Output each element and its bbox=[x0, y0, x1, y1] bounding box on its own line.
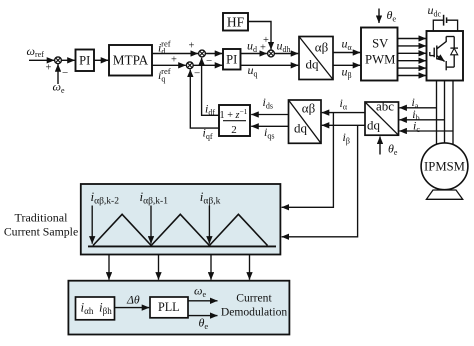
wire omega_ref input bbox=[29, 59, 54, 61]
wire i_b bbox=[399, 119, 444, 121]
capacitor dc link bbox=[444, 15, 447, 26]
transistor IGBT inside inverter bbox=[430, 37, 446, 71]
wire i_qs bbox=[251, 125, 288, 127]
wire SJ3 to PI2 bbox=[193, 64, 222, 66]
wire PLL theta_e out bbox=[188, 315, 218, 317]
wire i_alpha bbox=[322, 112, 365, 114]
label i_alpha bbox=[340, 96, 348, 111]
wire sample to demod 1 bbox=[108, 255, 110, 280]
wire omega_e up into SJ1 bbox=[57, 64, 59, 84]
label delta theta bbox=[126, 292, 140, 306]
label i_qs bbox=[264, 125, 274, 140]
wire phase a vertical bbox=[436, 81, 438, 145]
label omega_e out bbox=[194, 284, 206, 299]
wire i_df feedback to SJ2 bbox=[202, 58, 219, 116]
wire i_beta bbox=[322, 124, 365, 126]
wire SJ2 to PI2 bbox=[205, 53, 222, 55]
wire sample to demod 3 bbox=[210, 255, 212, 280]
label i_ab,k bbox=[200, 189, 221, 207]
wire theta_e into abc/dq bbox=[379, 137, 381, 155]
sample arrow k-1 bbox=[150, 206, 152, 244]
wire phase b vertical bbox=[444, 81, 446, 143]
svg-text:+: + bbox=[171, 55, 177, 66]
label u_alpha bbox=[342, 37, 353, 52]
label i_beta bbox=[343, 130, 350, 145]
block filter (1+z^-1)/2 bbox=[219, 105, 250, 136]
svg-text:+: + bbox=[260, 43, 266, 54]
sample arrow k-2 bbox=[91, 206, 93, 244]
summing junction SJ3 bbox=[186, 62, 200, 80]
wire phase c vertical bbox=[452, 81, 454, 145]
motor IPMSM bbox=[421, 143, 468, 199]
summing junction SJ1 bbox=[46, 57, 69, 79]
label id_ref bbox=[158, 39, 171, 56]
block PI1 bbox=[76, 50, 95, 72]
block ih box bbox=[76, 297, 115, 320]
wire ih to PLL bbox=[115, 307, 150, 309]
block U2 abc/dq current transform bbox=[365, 99, 399, 136]
wire MTPA to SJ3 (q-axis) bbox=[152, 64, 186, 66]
carrier triangle wave bbox=[93, 214, 268, 245]
wire MTPA to SJ2 (d-axis) bbox=[152, 53, 198, 55]
svg-text:dq: dq bbox=[306, 57, 320, 72]
block MTPA bbox=[109, 45, 152, 76]
svg-text:Current: Current bbox=[236, 292, 272, 305]
label iq_ref bbox=[158, 66, 171, 83]
svg-text:PI: PI bbox=[79, 54, 90, 68]
svg-text:Traditional: Traditional bbox=[15, 210, 69, 224]
wires SVPWM to inverter (6 gate lines) bbox=[398, 39, 427, 76]
wire i_a bbox=[399, 107, 436, 109]
wire u_alpha to SVPWM bbox=[333, 52, 360, 54]
wire theta_e into SVPWM top bbox=[378, 9, 380, 24]
label i_ab,k-1 bbox=[140, 189, 169, 207]
label u_dc bbox=[428, 3, 442, 18]
sample arrow k bbox=[208, 206, 210, 244]
block inverter bbox=[427, 31, 464, 81]
wire i_alpha tap down to sample box bbox=[282, 113, 334, 208]
label u_beta bbox=[342, 65, 352, 80]
label i_qf bbox=[203, 126, 213, 141]
label i_c bbox=[413, 119, 420, 134]
wire PI2 to ab/dq block (u_q) bbox=[241, 64, 299, 66]
block traditional current sample box bbox=[81, 184, 281, 255]
block PLL bbox=[150, 297, 188, 318]
svg-text:−: − bbox=[194, 68, 200, 80]
label Traditional Current Sample bbox=[4, 210, 78, 238]
wire SJ1 to PI1 bbox=[61, 59, 74, 61]
diode freewheeling inside inverter bbox=[446, 37, 458, 68]
svg-text:+: + bbox=[189, 41, 195, 52]
svg-text:SV: SV bbox=[372, 37, 389, 51]
svg-text:abc: abc bbox=[376, 99, 394, 114]
wire i_beta tap down to sample box bbox=[282, 125, 358, 237]
wire sample to demod 4 bbox=[249, 255, 251, 280]
label i_a bbox=[412, 95, 419, 110]
svg-text:PWM: PWM bbox=[365, 53, 395, 67]
wire sample to demod 2 bbox=[158, 255, 160, 280]
label i_ds bbox=[263, 95, 273, 110]
wire dc bus left bbox=[433, 20, 443, 31]
block U1 alphabeta/dq voltage transform bbox=[299, 37, 333, 80]
wire i_qf feedback to SJ3 bbox=[190, 70, 219, 129]
svg-text:PI: PI bbox=[226, 53, 237, 67]
svg-text:MTPA: MTPA bbox=[113, 53, 149, 68]
wire PLL omega_e out bbox=[188, 300, 218, 302]
block SVPWM bbox=[361, 28, 398, 81]
label u_dh bbox=[277, 39, 291, 54]
summing junction SJ4 bbox=[268, 50, 275, 57]
svg-text:Current Sample: Current Sample bbox=[4, 224, 78, 238]
block U3 alphabeta/dq current transform bbox=[289, 100, 322, 143]
label i_ab,k-2 bbox=[91, 189, 120, 207]
wire i_ds bbox=[251, 114, 288, 116]
wire SJ4 to ab/dq block bbox=[274, 53, 298, 55]
wire dc bus right bbox=[447, 20, 457, 31]
svg-text:−: − bbox=[62, 67, 68, 79]
label theta_e at SVPWM bbox=[387, 8, 397, 23]
svg-text:Demodulation: Demodulation bbox=[221, 306, 288, 319]
wire i_c bbox=[399, 130, 453, 132]
svg-text:αβ: αβ bbox=[302, 101, 316, 116]
label u_q bbox=[248, 63, 258, 78]
svg-text:PLL: PLL bbox=[158, 300, 180, 314]
sample baseline bbox=[88, 245, 276, 247]
svg-text:dq: dq bbox=[367, 118, 381, 133]
svg-text:Δθ: Δθ bbox=[126, 292, 140, 306]
svg-text:αβ: αβ bbox=[315, 40, 329, 55]
block PI2 bbox=[223, 49, 241, 70]
summing junction SJ2 bbox=[199, 50, 213, 67]
label i_b bbox=[412, 107, 419, 122]
label u_d bbox=[247, 39, 257, 54]
label omega_e feedback bbox=[53, 80, 65, 95]
svg-text:2: 2 bbox=[231, 124, 237, 136]
label theta_e at abc/dq bbox=[388, 142, 398, 157]
label i_df bbox=[205, 102, 215, 117]
wire u_beta to SVPWM bbox=[333, 64, 360, 66]
label omega_ref bbox=[27, 44, 45, 59]
svg-text:+: + bbox=[46, 62, 52, 73]
svg-text:HF: HF bbox=[227, 14, 245, 29]
label theta_e out bbox=[199, 316, 209, 331]
svg-text:IPMSM: IPMSM bbox=[424, 160, 465, 174]
wire PI2 to SJ4 (u_d) bbox=[241, 53, 267, 55]
wire PI1 to MTPA bbox=[94, 59, 108, 61]
wire HF to SJ4 bbox=[248, 22, 271, 50]
block current demodulation box bbox=[68, 281, 289, 335]
label Current Demodulation bbox=[221, 292, 288, 319]
block HF bbox=[223, 13, 248, 31]
svg-text:dq: dq bbox=[294, 121, 308, 136]
